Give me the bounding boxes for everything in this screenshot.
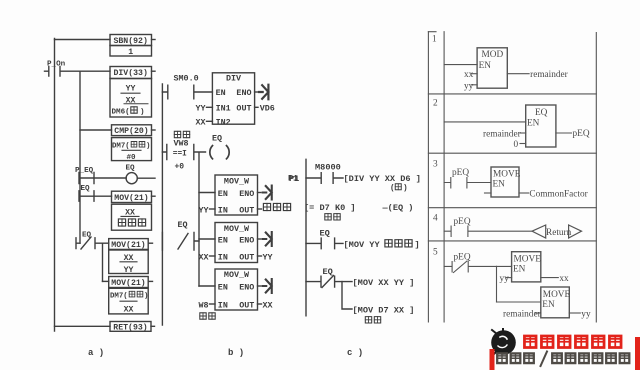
svg-text:EQ: EQ xyxy=(323,267,333,277)
stub IN MOVE r3 xyxy=(485,192,492,194)
wire MOD out xyxy=(507,73,529,75)
svg-text:YY: YY xyxy=(263,252,274,262)
box DIV xyxy=(212,73,254,124)
node branch r5 xyxy=(496,266,498,302)
left power rail a xyxy=(54,39,56,332)
svg-text:DM6(: DM6( xyxy=(112,108,130,116)
wire EN r5b xyxy=(497,301,541,303)
contact EQ NC xyxy=(76,237,109,249)
svg-text:): ) xyxy=(403,185,408,193)
overline DM6(shang) xyxy=(124,103,148,105)
svg-text:XX: XX xyxy=(196,117,207,127)
svg-text:ENO: ENO xyxy=(239,236,254,246)
hanzi of section b xyxy=(174,131,290,319)
svg-text:EQ: EQ xyxy=(82,232,92,240)
fraction bar DM7/#0 xyxy=(122,149,141,151)
contact SM0.0 xyxy=(162,85,212,99)
box EQ r xyxy=(526,105,556,147)
wire EN3 xyxy=(199,285,215,287)
svg-text:IN2: IN2 xyxy=(216,117,231,127)
coil EQ parens xyxy=(210,146,229,159)
dash XX-IN2 xyxy=(207,120,213,122)
svg-text:[MOV YY: [MOV YY xyxy=(344,240,381,250)
svg-text:[= D7 K0 ]: [= D7 K0 ] xyxy=(304,203,356,213)
svg-text:): ) xyxy=(146,143,150,151)
box RET(93) xyxy=(110,322,151,332)
box MOD xyxy=(477,48,507,88)
texts of section b xyxy=(173,73,298,358)
svg-text:yy: yy xyxy=(581,309,591,319)
svg-text:YY: YY xyxy=(196,103,207,113)
svg-text:b ): b ) xyxy=(228,348,244,358)
svg-text:yy: yy xyxy=(464,81,474,91)
svg-text:EN: EN xyxy=(218,283,228,293)
svg-text:): ) xyxy=(144,292,148,300)
svg-text:RET(93): RET(93) xyxy=(113,322,147,332)
contact P_EQ xyxy=(79,173,94,184)
svg-text:#0: #0 xyxy=(126,154,136,162)
fraction bar YY/XX xyxy=(121,92,140,94)
svg-text:DIV(33): DIV(33) xyxy=(113,68,147,78)
svg-text:EN: EN xyxy=(218,236,228,246)
dash xx MOD xyxy=(472,73,478,75)
svg-text:IN: IN xyxy=(218,205,228,215)
svg-text:MOV(21): MOV(21) xyxy=(114,193,148,203)
dash YY-IN1 xyxy=(207,106,213,108)
svg-text:[MOV D7 XX ]: [MOV D7 XX ] xyxy=(353,305,415,315)
contact EQ2 xyxy=(79,191,94,201)
svg-text:XX: XX xyxy=(199,252,210,262)
contact pEQ r4 xyxy=(444,226,532,237)
wire EQ out xyxy=(556,132,572,134)
svg-text:MOV_W: MOV_W xyxy=(224,176,250,186)
box MOV_W 1 xyxy=(215,175,258,215)
svg-text:CMP(20): CMP(20) xyxy=(114,126,148,136)
box MOV(21) no2 xyxy=(109,239,149,250)
svg-text:(: ( xyxy=(390,185,395,193)
wire stub MOV1 right xyxy=(152,195,156,197)
hanzi yushu D7 move xyxy=(365,317,371,323)
contact P_On xyxy=(45,67,111,77)
node branch c xyxy=(342,282,352,309)
wire MOVE r3 out xyxy=(519,192,529,194)
svg-text:YY: YY xyxy=(124,266,134,275)
svg-text:+0: +0 xyxy=(175,163,185,172)
arrow ENO MOV2 xyxy=(263,232,272,246)
svg-text:pEQ: pEQ xyxy=(454,217,471,227)
contact EQ c xyxy=(306,238,343,249)
dash W8-IN xyxy=(210,303,216,305)
node branch b xyxy=(198,152,200,286)
box MOV_W 2 xyxy=(215,223,258,263)
contact pEQ r3 xyxy=(444,178,491,189)
dash 0 EQ xyxy=(520,143,526,145)
box MOVE r5b xyxy=(541,287,570,318)
wire EQ2 to MOV1 xyxy=(94,195,112,197)
wire stub RET right xyxy=(151,325,155,327)
wire ENO3 xyxy=(258,285,262,287)
svg-text:OUT: OUT xyxy=(239,252,254,262)
svg-text:M8000: M8000 xyxy=(315,162,341,172)
svg-text:MOVE: MOVE xyxy=(493,169,521,179)
svg-text:EN: EN xyxy=(216,88,226,98)
dash YY-IN xyxy=(210,208,216,210)
svg-text:xx: xx xyxy=(559,274,569,284)
wire rung RET xyxy=(55,325,111,327)
box CMP(20) xyxy=(112,125,152,136)
svg-text:MOV_W: MOV_W xyxy=(224,270,250,280)
node branch junction xyxy=(79,71,81,243)
watermark line1 red hanzi xyxy=(524,336,621,348)
wire stub MOV3 right xyxy=(148,280,152,282)
svg-text:EN: EN xyxy=(542,300,555,310)
svg-text:EN: EN xyxy=(513,265,526,275)
wire coil right xyxy=(137,177,155,179)
separator rung3/4 xyxy=(428,207,596,209)
hanzi yushu VW8 xyxy=(174,131,180,137)
box MOVE r3 xyxy=(491,167,519,197)
hanzi of section a xyxy=(118,107,145,297)
dash yy r5a xyxy=(507,277,512,279)
svg-text:IN1: IN1 xyxy=(216,103,231,113)
svg-text:==I: ==I xyxy=(173,150,187,158)
wire ENO2 xyxy=(258,238,262,240)
dash yy MOD xyxy=(472,84,478,86)
watermark line2 dark hanzi xyxy=(497,353,534,363)
box MOV2 operands xyxy=(109,250,149,274)
svg-text:EQ: EQ xyxy=(212,134,222,144)
hanzi yushu D7 xyxy=(325,214,331,220)
svg-text:EQ: EQ xyxy=(126,165,136,173)
wire OUT3 to XX xyxy=(258,303,262,305)
wire OUT out xyxy=(255,106,258,108)
contact EQ NC b xyxy=(162,233,199,251)
contact compare VW8 xyxy=(162,144,205,159)
coil return left triangle xyxy=(532,225,546,238)
box MOV3 operands xyxy=(109,288,149,314)
svg-text:—(EQ ): —(EQ ) xyxy=(382,203,414,213)
svg-text:EQ: EQ xyxy=(81,185,91,193)
svg-text:P_EQ: P_EQ xyxy=(75,167,94,175)
svg-text:XX: XX xyxy=(124,254,134,263)
box DIV operands xyxy=(110,79,152,118)
underline XX in MOV1 xyxy=(121,215,139,217)
hanzi shang DM6 xyxy=(131,107,137,113)
svg-text:SBN(92): SBN(92) xyxy=(113,36,147,46)
svg-text:[DIV YY XX D6 ]: [DIV YY XX D6 ] xyxy=(344,174,421,184)
svg-text:OUT: OUT xyxy=(236,103,251,113)
svg-text:XX: XX xyxy=(125,209,135,218)
svg-text:EQ: EQ xyxy=(320,229,330,239)
svg-text:EN: EN xyxy=(479,61,492,71)
logo inner marks xyxy=(492,329,503,355)
contact pEQ NC r5 xyxy=(444,261,496,273)
svg-text:): ) xyxy=(140,108,145,116)
wire P_EQ to coil xyxy=(94,177,126,179)
svg-text:EQ: EQ xyxy=(178,220,188,230)
svg-text:CommonFactor: CommonFactor xyxy=(529,190,588,200)
svg-text:pEQ: pEQ xyxy=(573,129,590,139)
svg-text:MOV(21): MOV(21) xyxy=(111,240,145,250)
svg-text:XX: XX xyxy=(126,97,136,106)
svg-text:1: 1 xyxy=(432,35,437,45)
svg-text:P_On: P_On xyxy=(47,60,66,68)
svg-text:EQ: EQ xyxy=(535,108,548,118)
dash remainder r5b xyxy=(535,312,541,314)
wire r5a out xyxy=(541,277,559,279)
svg-text:]: ] xyxy=(415,240,420,250)
svg-text:EN: EN xyxy=(527,118,540,128)
wire r5b out xyxy=(569,312,580,314)
separator rung1/2 xyxy=(428,93,596,95)
box MOVE r5a xyxy=(512,252,541,282)
box MOV1 operands xyxy=(112,204,152,230)
svg-text:MOV_W: MOV_W xyxy=(224,224,250,234)
svg-text:OUT: OUT xyxy=(239,300,254,310)
svg-text:0: 0 xyxy=(514,140,519,150)
texts of right section xyxy=(432,35,591,320)
wire ENO out xyxy=(255,91,258,93)
contact M8000 xyxy=(306,173,343,184)
wire branch2 to MOV3 xyxy=(103,280,109,282)
separator rung4/5 xyxy=(428,240,596,242)
svg-text:MOD: MOD xyxy=(482,50,504,60)
top corner tick xyxy=(428,31,436,33)
svg-text:VW8: VW8 xyxy=(174,138,189,148)
contact EQ NC c xyxy=(306,276,352,288)
wire stub MOV2 right xyxy=(148,242,152,244)
svg-text:MOV(21): MOV(21) xyxy=(111,278,145,288)
arrow ENO MOV1 xyxy=(263,186,272,200)
svg-text:SM0.0: SM0.0 xyxy=(174,73,199,83)
svg-text:pEQ: pEQ xyxy=(454,252,471,262)
left power rail c xyxy=(305,159,307,315)
node branch2 xyxy=(102,243,104,281)
left power rail b xyxy=(161,84,163,325)
svg-text:5: 5 xyxy=(433,248,438,258)
box SBN(92) xyxy=(110,35,152,46)
svg-text:xx: xx xyxy=(464,70,474,80)
right power rail r xyxy=(595,33,597,323)
hanzi yushu W8 xyxy=(200,313,206,319)
box 1 operand xyxy=(110,46,152,57)
dash XX-IN xyxy=(210,255,216,257)
svg-text:MOVE: MOVE xyxy=(514,254,542,264)
svg-text:YY: YY xyxy=(126,84,136,93)
dash remainder EQ xyxy=(520,132,526,134)
fraction bar DM7/XX xyxy=(120,300,137,302)
svg-text:4: 4 xyxy=(433,214,438,224)
wire EN EQ xyxy=(444,121,526,123)
svg-text:1: 1 xyxy=(128,48,133,57)
hanzi yushu DM7 xyxy=(131,142,137,148)
svg-text:yy: yy xyxy=(500,274,510,284)
wire stub SBN right xyxy=(152,39,156,41)
wire OUT1 to gongyinshu xyxy=(258,208,262,210)
svg-text:ENO: ENO xyxy=(239,283,254,293)
svg-text:MOVE: MOVE xyxy=(543,290,571,300)
svg-text:Return: Return xyxy=(546,228,572,238)
svg-text:c ): c ) xyxy=(347,348,363,358)
box CMP operands xyxy=(112,138,152,161)
separator rung2/3 xyxy=(428,152,596,154)
hanzi gongyinshu c xyxy=(385,240,392,247)
svg-text:ENO: ENO xyxy=(236,88,251,98)
svg-text:XX: XX xyxy=(263,300,274,310)
coil EQ circle xyxy=(126,173,137,184)
red bar left of line2 xyxy=(490,349,495,370)
svg-text:XX: XX xyxy=(124,306,134,315)
svg-text:OUT: OUT xyxy=(239,205,254,215)
wire EN2 xyxy=(199,238,215,240)
left power rail r xyxy=(443,32,445,322)
hanzi shang c xyxy=(395,184,401,190)
wire stub CMP right xyxy=(152,129,156,131)
svg-text:EN: EN xyxy=(493,180,506,190)
wire ENO1 xyxy=(258,192,262,194)
hanzi of section c xyxy=(325,184,412,323)
wire EN1 xyxy=(199,192,215,194)
wire rung CMP xyxy=(80,129,112,131)
svg-text:ENO: ENO xyxy=(239,189,254,199)
wire EN r5a xyxy=(497,265,512,267)
box DIV(33) xyxy=(110,67,152,79)
svg-text:[MOV XX YY ]: [MOV XX YY ] xyxy=(353,278,415,288)
wire OUT2 to YY xyxy=(258,255,262,257)
svg-text:P1: P1 xyxy=(289,174,299,184)
svg-text:YY: YY xyxy=(199,205,210,215)
svg-text:a ): a ) xyxy=(88,348,104,358)
svg-text:remainder: remainder xyxy=(530,70,569,80)
svg-text:2: 2 xyxy=(433,99,438,109)
box MOV_W 3 xyxy=(215,269,258,310)
red bar right edge xyxy=(635,337,640,370)
hanzi gongyinshu OUT1 xyxy=(263,203,270,210)
svg-text:remainder: remainder xyxy=(483,129,522,139)
slash line2 xyxy=(541,352,548,367)
svg-text:EN: EN xyxy=(218,189,228,199)
box MOV(21) no1 xyxy=(112,191,152,202)
wire rung SBN xyxy=(55,39,111,41)
box MOV(21) no3 xyxy=(109,277,149,288)
svg-text:pEQ: pEQ xyxy=(452,168,469,178)
arrow ENO MOV3 xyxy=(263,279,272,293)
svg-text:IN: IN xyxy=(218,300,228,310)
svg-text:DM7(: DM7( xyxy=(112,143,130,151)
svg-text:3: 3 xyxy=(433,160,438,170)
ENO arrows b xyxy=(259,85,272,293)
hanzi gongyinshu MOV1 xyxy=(118,219,125,226)
wire stub DIV right xyxy=(152,70,156,72)
svg-text:DIV: DIV xyxy=(226,74,242,84)
fraction bar XX/YY xyxy=(120,261,137,263)
texts of section a xyxy=(47,36,150,358)
svg-text:IN: IN xyxy=(218,252,228,262)
hanzi yushu MOV3 xyxy=(129,291,135,297)
svg-text:remainder: remainder xyxy=(503,309,542,319)
logo blob xyxy=(491,330,516,355)
svg-text:W8: W8 xyxy=(199,300,209,310)
outer border line xyxy=(427,32,429,322)
svg-text:DM7(: DM7( xyxy=(110,292,128,300)
arrow ENO DIV xyxy=(259,85,268,100)
texts of section c xyxy=(289,162,421,358)
coil return right triangle xyxy=(569,225,582,238)
wire EN MOD xyxy=(444,64,477,66)
svg-text:VD6: VD6 xyxy=(260,103,275,113)
